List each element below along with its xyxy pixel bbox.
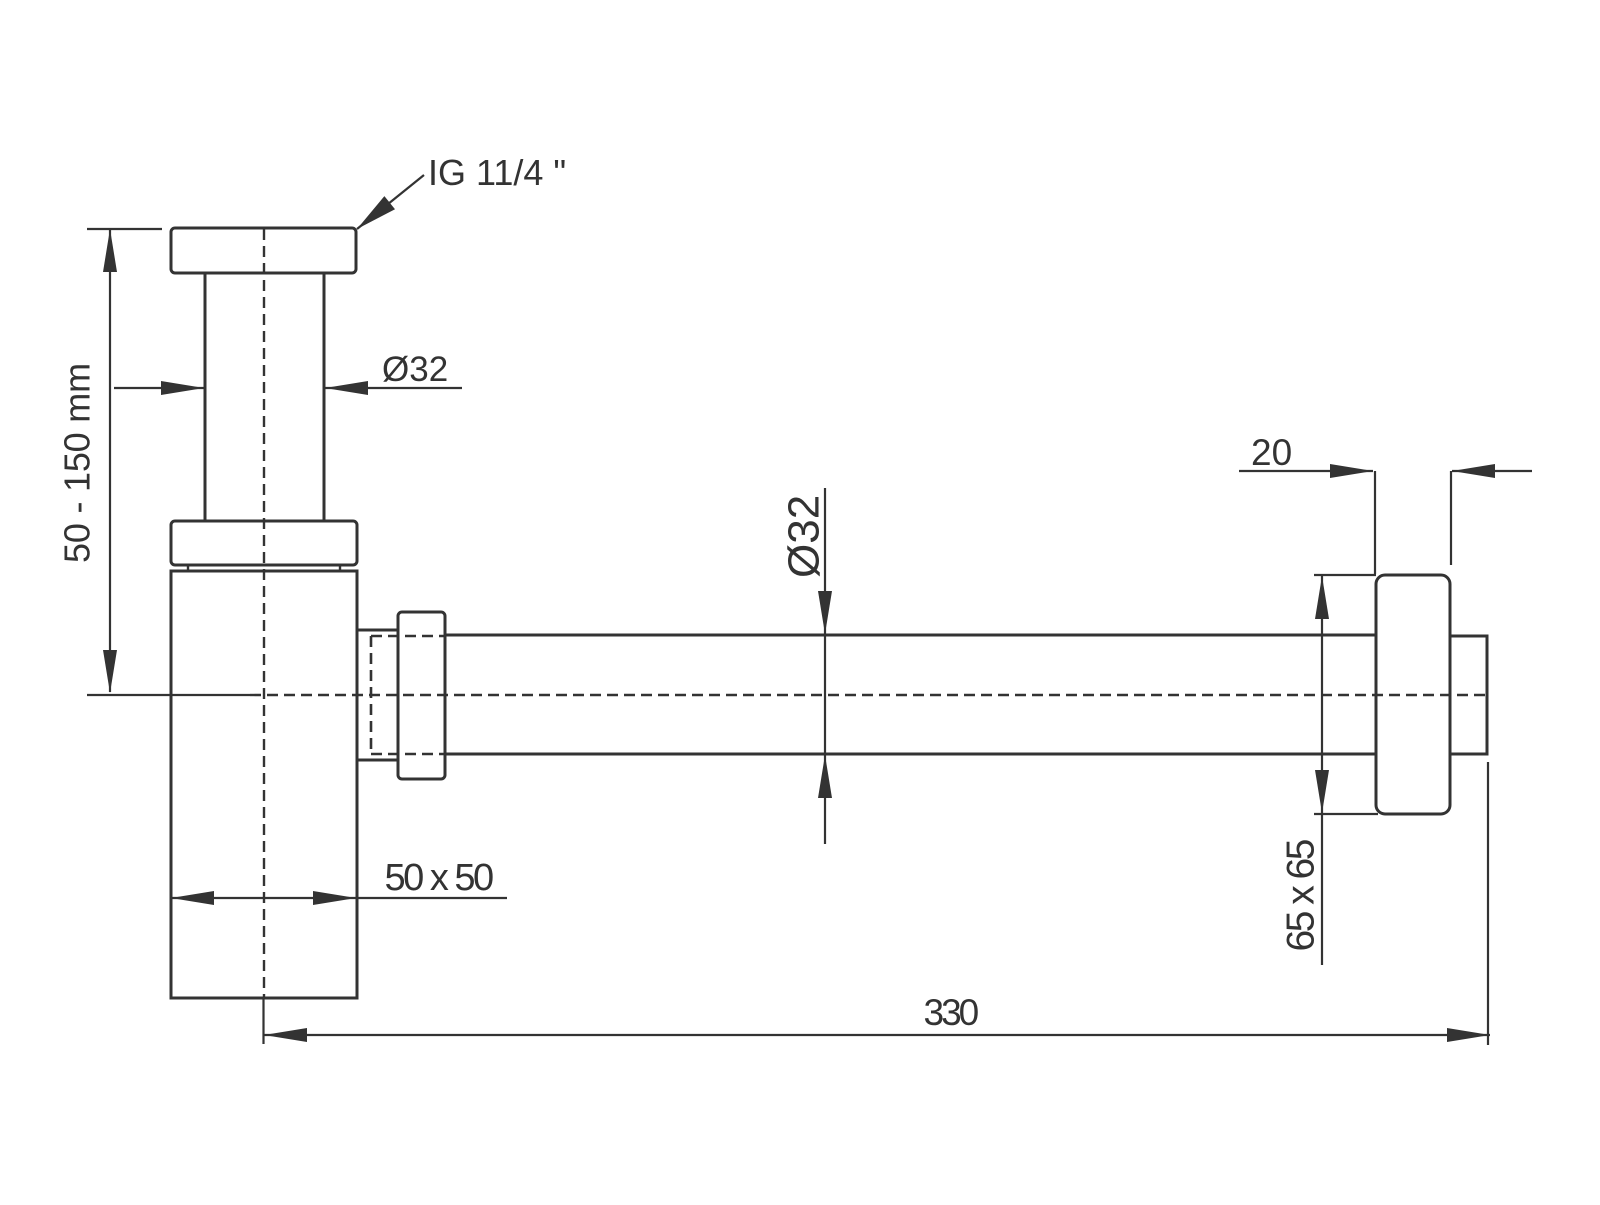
arrowhead 330 left	[264, 1028, 307, 1042]
dimension 50-150mm extension lines	[87, 229, 250, 695]
wall-side pipe stub	[1450, 636, 1487, 754]
siphon cup body	[171, 571, 357, 998]
cup lip ticks	[188, 565, 340, 571]
leader line IG 11/4	[357, 175, 424, 229]
svg-text:IG 11/4 ": IG 11/4 "	[428, 152, 566, 193]
arrowhead 50x50 left	[171, 891, 214, 905]
dimension 65x65 line	[1321, 575, 1323, 965]
dimension D32 middle line	[824, 488, 826, 844]
svg-text:Ø32: Ø32	[382, 350, 448, 389]
arrowhead 20 right	[1330, 464, 1373, 478]
svg-text:20: 20	[1251, 432, 1292, 473]
horizontal centerline (dashed)	[250, 694, 1487, 696]
dimension 330 line	[264, 1034, 1491, 1036]
dimension 20 extension lines	[1375, 471, 1451, 574]
svg-text:Ø32: Ø32	[780, 495, 829, 578]
arrowhead 20 left	[1452, 464, 1495, 478]
dimension 330 extension lines	[264, 762, 1489, 1045]
top flange (IG 11/4 inch connector)	[171, 228, 356, 273]
upper slip nut flange	[171, 521, 357, 565]
horizontal waste pipe	[445, 635, 1376, 754]
arrowhead 50-150mm up	[103, 229, 117, 272]
arrowhead D32 top left	[161, 381, 204, 395]
arrowhead 50-150mm down	[103, 650, 117, 693]
svg-text:330: 330	[924, 992, 979, 1033]
dimension 65x65 extension lines	[1314, 575, 1378, 814]
arrowhead 330 right	[1447, 1028, 1490, 1042]
dimension 20 lines	[1239, 470, 1532, 472]
compression nut	[398, 612, 445, 779]
svg-text:50 x 50: 50 x 50	[385, 857, 494, 899]
wall flange (rosette)	[1376, 575, 1450, 814]
arrowhead D32 middle up	[818, 755, 832, 798]
dimension D32 top lines	[114, 387, 462, 389]
outlet stub from cup	[357, 630, 398, 760]
hidden pipe end inside nut (dashed)	[371, 636, 445, 754]
svg-text:65 x 65: 65 x 65	[1280, 839, 1323, 951]
dimension 50-150mm line	[109, 229, 111, 692]
vertical centerline (dashed)	[263, 229, 265, 998]
arrowhead 65x65 down	[1315, 770, 1329, 813]
arrowhead leader IG	[357, 196, 395, 229]
svg-text:50 - 150 mm: 50 - 150 mm	[57, 363, 98, 563]
arrowhead 50x50 right	[313, 891, 356, 905]
arrowhead D32 middle down	[818, 591, 832, 634]
arrowhead 65x65 up	[1315, 576, 1329, 619]
dimension 50x50 line	[171, 897, 507, 899]
vertical tailpiece pipe	[205, 273, 324, 521]
arrowhead D32 top right	[325, 381, 368, 395]
